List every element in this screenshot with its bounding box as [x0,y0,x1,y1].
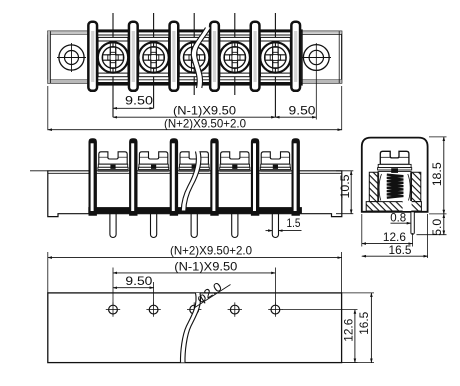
dimension 9.50 (top left pitch) [113,93,154,108]
pin hole 4 (bottom view) [228,302,242,316]
top view: left end bracket [48,31,92,83]
screw terminal 2 (top view) [138,37,168,76]
side view: outer profile [362,138,428,212]
dimension (N+2)X9.50+2.0 (top) [48,86,342,130]
svg-text:(N+2)X9.50+2.0: (N+2)X9.50+2.0 [164,116,246,130]
center line screw 3 [193,13,195,95]
pin hole 2 (bottom view) [146,302,160,316]
svg-text:16.5: 16.5 [357,311,371,334]
barrier wall 1 (top view) [88,22,97,91]
side view: clamp cage [379,172,412,211]
dimension 12.6 (pin offset side) [362,214,413,247]
svg-text:16.5: 16.5 [389,243,412,257]
barrier wall 5 (top view) [251,22,260,91]
svg-text:9.50: 9.50 [125,93,153,107]
dimension 18.5 (side height) [429,137,447,214]
pin 4 (front view) [232,214,238,238]
dimension 16.5 (bottom depth) [342,293,374,363]
pin 2 (front view) [151,214,157,238]
svg-text:12.6: 12.6 [341,318,355,341]
barrier wall 1 (front view) [89,139,97,216]
svg-text:1.5: 1.5 [287,216,301,230]
side view: base hatched [366,202,421,211]
svg-text:9.50: 9.50 [289,104,316,118]
dimension (N-1)X9.50 (top) [113,104,275,118]
svg-text:9.50: 9.50 [125,274,152,288]
center line screw 4 [234,13,236,95]
barrier wall 6 (front view) [292,139,300,216]
svg-text:5.0: 5.0 [430,218,444,235]
dimension (N-1)X9.50 (bottom) [113,259,275,305]
barrier wall 3 (front view) [170,139,178,216]
barrier wall 4 (front view) [211,139,219,216]
screw head 4 (front view) [220,152,250,171]
screw terminal 5 (top view) [260,37,290,76]
break line (front view) [181,152,201,211]
dimension 9.50 (top right) [275,104,316,118]
barrier wall 5 (front view) [251,139,259,216]
pin hole 3 (bottom view) [187,302,201,316]
top view: right mounting hole [302,43,332,120]
top view: left mounting hole [57,43,86,72]
screw terminal 4 (top view) [220,37,250,76]
barrier wall 6 (top view) [291,22,300,91]
break line (top view) [191,28,211,89]
dimension 10.5 (front height) [336,171,353,214]
center line screw 2 [153,13,155,108]
side view: screw head [378,151,412,173]
barrier wall 3 (top view) [170,22,179,91]
pin 1 (front view) [110,214,116,238]
svg-text:0.8: 0.8 [390,210,406,224]
side view: screw thread coil [387,175,404,198]
svg-text:10.5: 10.5 [338,174,352,198]
barrier wall 2 (front view) [130,139,138,216]
pin 3 (front view) [191,214,197,238]
dimension 1.5 (pin width) [266,216,302,230]
barrier wall 2 (top view) [129,22,138,91]
dimension 0.8 (pin thickness) [390,210,411,224]
svg-text:12.6: 12.6 [383,230,406,244]
pin hole 1 (bottom view) [106,302,120,316]
screw terminal 1 (top view) [98,37,128,76]
pin 5 (front view) [272,214,278,238]
center line screw 1 [112,13,114,117]
screw head 2 (front view) [139,152,169,171]
bottom view: base outline [48,293,342,363]
top view: body housing [88,30,302,85]
leader and label dia 2.0 [194,280,231,308]
screw head 5 (front view) [260,152,290,171]
break line (bottom view) [180,293,200,363]
side view: left wall hatched [369,172,378,201]
svg-text:(N-1)X9.50: (N-1)X9.50 [174,259,237,273]
barrier wall 4 (top view) [210,22,219,91]
front view: housing outline [48,171,342,217]
center line screw 5 [274,13,276,117]
dimension 16.5 (side width) [362,214,428,258]
screw head 3 (front view) [179,152,209,171]
dimension 12.6 (bottom, hole offset) [282,310,358,363]
dimension (N+2)X9.50+2.0 (bottom) [48,243,342,293]
svg-text:(N+2)X9.50+2.0: (N+2)X9.50+2.0 [170,243,252,257]
pin hole 5 (bottom view) [268,302,282,316]
front view: stray ledge line left [30,170,48,172]
svg-text:18.5: 18.5 [430,162,444,186]
side view: pin [411,212,414,234]
dimension 5.0 (pin length) [417,214,447,236]
top view: right end bracket [301,31,342,83]
screw terminal 3 (top view) [179,37,209,76]
dimension 9.50 (bottom pitch) [113,274,154,305]
screw head 1 (front view) [98,152,128,171]
side view: right wall hatched [412,172,421,201]
